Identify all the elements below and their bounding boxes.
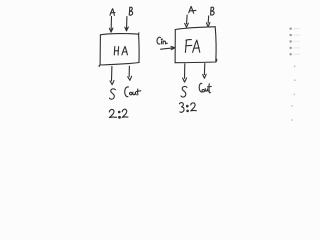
- node Cout (HA carry output label): [125, 87, 141, 97]
- wire Cin into FA with arrowhead: [161, 47, 175, 50]
- wire A into FA with arrowhead: [185, 15, 189, 27]
- wire FA to Cout with arrowhead: [203, 64, 207, 79]
- label 2:2 (HA compresses 2 inputs to 2 outputs): [109, 109, 128, 118]
- wire A into HA with arrowhead: [109, 16, 113, 32]
- wire B into FA with arrowhead: [206, 16, 210, 27]
- node Cout (FA carry output label): [199, 83, 211, 92]
- wire HA to S with arrowhead: [110, 66, 114, 84]
- wire FA to S with arrowhead: [183, 64, 187, 82]
- node A (FA input label): [189, 6, 196, 13]
- half adder U1 box (HA): [99, 33, 139, 67]
- node A (HA input label): [110, 9, 115, 16]
- node B (HA input label): [129, 7, 132, 15]
- label 3:2 (FA compresses 3 inputs to 2 outputs): [179, 103, 196, 113]
- label HA inside box: [114, 47, 127, 56]
- sidebar list items (cropped at right edge): [290, 28, 300, 56]
- node S (FA sum output label): [181, 86, 187, 97]
- node S (HA sum output label): [110, 89, 116, 99]
- faint cropped marks at right edge: [291, 66, 295, 121]
- node Cin (FA carry-in label): [157, 37, 167, 44]
- full adder U2 box (FA): [175, 27, 217, 63]
- wire B into HA with arrowhead: [125, 17, 129, 31]
- wire HA to Cout with arrowhead: [128, 66, 132, 80]
- label FA inside box: [185, 40, 199, 53]
- node B (FA input label): [211, 7, 215, 15]
